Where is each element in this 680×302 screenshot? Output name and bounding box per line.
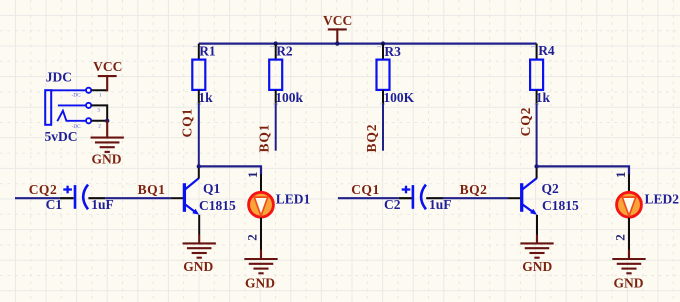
- svg-text:C1815: C1815: [542, 198, 579, 213]
- resistor R4 pin 2 (bottom): [536, 90, 538, 104]
- svg-text:R3: R3: [384, 44, 401, 59]
- svg-text:1: 1: [245, 172, 260, 179]
- transistor Q1 collector pin: [198, 166, 200, 178]
- svg-text:LED1: LED1: [276, 191, 311, 206]
- svg-text:BQ2: BQ2: [364, 124, 379, 153]
- wire Q2 emitter to ground: [536, 215, 538, 235]
- resistor R4 pin 1 (top): [536, 44, 538, 60]
- wire JDC pin 1 to VCC: [91, 89, 107, 91]
- svg-text:CQ1: CQ1: [351, 182, 380, 197]
- svg-text:-DC: -DC: [72, 93, 81, 99]
- resistor R2 body: [269, 60, 282, 90]
- capacitor C2 negative (curved) plate: [421, 185, 426, 210]
- ground GND (jack): [92, 138, 123, 152]
- capacitor C2 positive plate: [412, 185, 415, 209]
- svg-text:C1: C1: [46, 197, 63, 212]
- svg-text:1: 1: [99, 92, 102, 98]
- svg-text:1uF: 1uF: [91, 197, 114, 212]
- ground GND (Q1 emitter): [184, 243, 215, 257]
- svg-text:JDC: JDC: [46, 69, 72, 84]
- svg-text:1: 1: [269, 45, 276, 48]
- connector JDC barrel body: [45, 90, 51, 125]
- junction Q1 collector node: [197, 164, 201, 168]
- svg-text:1: 1: [530, 45, 537, 48]
- svg-text:R4: R4: [538, 43, 555, 58]
- junction jack ground node: [105, 119, 109, 123]
- power port VCC (jack): [99, 76, 116, 90]
- LED LED2 pin 1 (top): [628, 174, 630, 192]
- wire R4 to Q2 collector node: [536, 104, 538, 166]
- transistor Q2 base bar: [520, 183, 523, 212]
- svg-text:C1815: C1815: [199, 198, 236, 213]
- svg-text:GND: GND: [92, 152, 122, 167]
- power port VCC (rail): [329, 29, 346, 43]
- svg-text:100K: 100K: [383, 90, 414, 105]
- wire net CQ2 into C1: [15, 197, 60, 199]
- resistor R3 body: [377, 60, 390, 90]
- resistor R2 pin 1 (top): [275, 44, 277, 60]
- svg-text:R2: R2: [276, 44, 293, 59]
- resistor R3 pin 1 (top): [382, 44, 384, 60]
- svg-text:CQ2: CQ2: [29, 182, 58, 197]
- resistor R1 body: [192, 60, 205, 90]
- wire C2 to Q2 base (net BQ2): [426, 197, 443, 199]
- capacitor C2 polarity + sign: [402, 186, 411, 194]
- svg-text:BQ1: BQ1: [138, 182, 166, 197]
- svg-text:VCC: VCC: [323, 13, 352, 28]
- svg-text:1uF: 1uF: [429, 197, 452, 212]
- transistor Q1 collector lead: [185, 178, 199, 189]
- connector JDC switch contact: [57, 111, 86, 122]
- wire R2 lower stub (net BQ1): [275, 104, 277, 151]
- connector JDC pin 1 lead: [51, 89, 86, 91]
- connector JDC pin 2 lead (tip contact): [58, 104, 86, 106]
- svg-text:GND: GND: [522, 259, 552, 274]
- wire JDC pin 3 to ground junction: [91, 105, 107, 120]
- resistor R1 pin 2 (bottom): [198, 90, 200, 104]
- svg-text:1: 1: [192, 45, 199, 48]
- ground GND (LED2): [613, 259, 644, 273]
- svg-text:1: 1: [376, 45, 383, 48]
- svg-text:1: 1: [613, 172, 628, 179]
- transistor Q2 emitter lead with arrow: [522, 204, 534, 212]
- svg-text:100k: 100k: [275, 90, 303, 105]
- svg-text:Q2: Q2: [542, 181, 560, 196]
- transistor Q2 collector lead: [522, 178, 536, 189]
- svg-text:3: 3: [97, 108, 100, 114]
- transistor Q1 base bar: [183, 183, 186, 212]
- svg-text:BQ1: BQ1: [257, 124, 272, 153]
- ground GND (Q2 emitter): [521, 243, 552, 257]
- svg-text:R1: R1: [199, 44, 216, 59]
- wire R1 to Q1 collector node: [198, 104, 200, 166]
- LED LED2 body: [617, 192, 642, 217]
- resistor R4 body: [530, 60, 543, 90]
- svg-text:1k: 1k: [198, 90, 213, 105]
- wire net CQ1 into C2: [338, 197, 399, 199]
- ground GND (LED1): [245, 259, 276, 273]
- svg-text:VCC: VCC: [93, 59, 122, 74]
- svg-text:5vDC: 5vDC: [45, 129, 78, 144]
- wire Q2 collector node to LED2: [537, 166, 629, 174]
- wire R3 lower stub (net BQ2): [382, 104, 384, 151]
- transistor Q2 base pin: [508, 197, 522, 199]
- capacitor C1 negative (curved) plate: [83, 185, 88, 210]
- wire jack junction to ground: [106, 121, 108, 138]
- junction rail-R3: [381, 41, 385, 45]
- svg-text:CQ2: CQ2: [518, 107, 533, 137]
- wire Q1 collector node to LED1: [199, 166, 261, 174]
- wire JDC pin 2 to ground junction: [91, 120, 107, 122]
- svg-text:2: 2: [613, 234, 628, 241]
- resistor R2 pin 2 (bottom): [275, 90, 277, 104]
- LED LED2 pin 2 (bottom): [628, 218, 630, 250]
- LED LED1 pin 1 (top): [260, 174, 262, 192]
- svg-text:LED2: LED2: [645, 191, 680, 206]
- resistor R3 pin 2 (bottom): [382, 90, 384, 104]
- svg-text:1k: 1k: [536, 90, 551, 105]
- LED LED1 body: [249, 192, 274, 217]
- svg-text:GND: GND: [614, 276, 644, 291]
- capacitor C1 positive plate: [74, 185, 77, 209]
- junction rail-R2: [274, 41, 278, 45]
- wire Q1 emitter to ground: [198, 215, 200, 235]
- transistor Q1 base pin: [171, 197, 185, 199]
- transistor Q2 collector pin: [536, 166, 538, 178]
- LED LED1 pin 2 (bottom): [260, 218, 262, 250]
- svg-text:2: 2: [244, 234, 259, 241]
- junction Q2 collector node: [534, 164, 538, 168]
- svg-text:2: 2: [98, 124, 101, 130]
- wire VCC rail: [199, 42, 537, 44]
- svg-text:C2: C2: [384, 197, 401, 212]
- transistor Q1 emitter lead with arrow: [185, 204, 196, 212]
- svg-text:GND: GND: [183, 259, 213, 274]
- capacitor C1 polarity + sign: [63, 186, 72, 194]
- svg-text:CQ1: CQ1: [180, 108, 195, 138]
- svg-text:GND: GND: [245, 276, 275, 291]
- svg-text:BQ2: BQ2: [460, 182, 488, 197]
- junction rail-VCC: [335, 41, 339, 45]
- svg-text:Q1: Q1: [203, 181, 221, 196]
- wire C1 to Q1 base (net BQ1): [88, 197, 105, 199]
- resistor R1 pin 1 (top): [198, 44, 200, 60]
